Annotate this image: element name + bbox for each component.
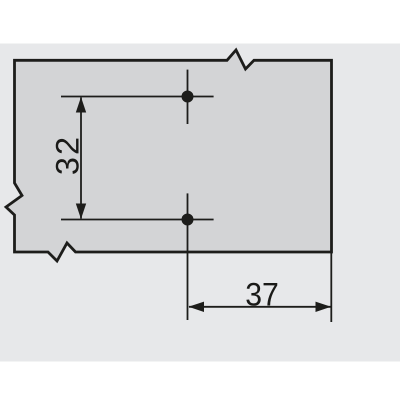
dimension 32 arrow down	[76, 204, 86, 220]
centerline vertical bottom hole / extension line for 37	[187, 193, 189, 320]
background band	[0, 44, 400, 362]
drill hole bottom	[182, 214, 194, 226]
centerline horizontal bottom hole	[61, 219, 214, 221]
centerline vertical top hole	[187, 70, 189, 124]
dimension 37 arrow right	[316, 302, 332, 312]
svg-text:37: 37	[245, 276, 279, 312]
dimension 32 line	[80, 98, 82, 219]
extension line right edge for 37	[330, 253, 332, 322]
drill hole top	[182, 91, 194, 103]
dimension 37 arrow left	[189, 302, 205, 312]
panel (cabinet side with break lines)	[6, 50, 332, 261]
svg-text:32: 32	[50, 135, 86, 175]
dimension 32 arrow up	[76, 97, 86, 113]
centerline horizontal top hole	[61, 96, 214, 98]
dimension 37 line	[189, 306, 331, 308]
